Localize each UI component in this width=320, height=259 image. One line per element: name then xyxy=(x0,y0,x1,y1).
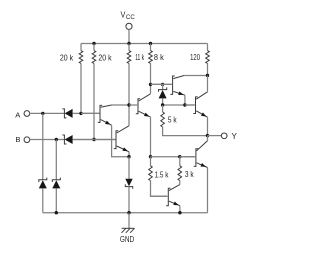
wire to Y terminal xyxy=(208,135,222,137)
svg-text:3 k: 3 k xyxy=(185,170,195,179)
label R3 11 k xyxy=(135,53,145,62)
input B terminal circle xyxy=(24,137,30,143)
transistor Q7 (output pull-down) xyxy=(180,136,208,213)
label R5 120 xyxy=(190,53,200,62)
label GND xyxy=(120,235,134,244)
svg-text:B: B xyxy=(15,135,20,144)
svg-text:Y: Y xyxy=(232,132,238,141)
label R8 3 k xyxy=(185,170,195,179)
node dot rail-VCC xyxy=(127,42,130,45)
resistor R6 5k leads xyxy=(163,105,208,136)
node dot 3k top xyxy=(178,155,181,158)
node dot B-R2 xyxy=(92,138,95,141)
resistor R3 11k leads xyxy=(128,44,130,106)
wire top VCC rail xyxy=(81,43,208,45)
resistor R5 120 xyxy=(206,51,210,64)
node dot 120-bottom xyxy=(206,74,209,77)
label R2 20 k xyxy=(98,54,112,63)
svg-text:20 k: 20 k xyxy=(98,54,112,63)
label input B xyxy=(15,135,20,144)
node dot A-R1 xyxy=(79,112,82,115)
label output Y xyxy=(232,132,238,141)
resistor R6 5k xyxy=(161,112,165,127)
node dot 5k top xyxy=(161,103,164,106)
resistor R8 3k leads xyxy=(179,157,181,166)
wire D4 bottom lead xyxy=(128,187,130,213)
diode D3 schottky xyxy=(159,87,167,98)
svg-text:20 k: 20 k xyxy=(60,54,74,63)
label R7 1.5 k xyxy=(155,171,170,180)
wire D3 top lead xyxy=(162,84,164,89)
node dot B-clamp xyxy=(55,138,58,141)
svg-text:5 k: 5 k xyxy=(168,115,178,124)
node dot X (Q1 collector / 11k / Q2 collector / Q3 base) xyxy=(127,103,130,106)
ground symbol xyxy=(122,228,135,233)
node dot rail-R4 xyxy=(149,42,152,45)
node dot Q1/Q2 emitter node xyxy=(127,155,130,158)
svg-text:GND: GND xyxy=(120,235,134,244)
svg-text:CC: CC xyxy=(126,14,135,21)
node dot Q4 emitter junction xyxy=(183,103,186,106)
resistor R5 120 leads xyxy=(207,44,209,76)
wire input B xyxy=(30,139,64,141)
diode D1 input A schottky xyxy=(62,109,72,118)
resistor R3 11k xyxy=(127,51,131,64)
transistor Q1 (input A) xyxy=(81,105,129,157)
power VCC terminal circle xyxy=(126,23,132,29)
resistor R2 20k leads xyxy=(93,44,95,140)
resistor R1 20k xyxy=(79,51,83,64)
label R4 8 k xyxy=(154,53,165,62)
svg-text:8 k: 8 k xyxy=(154,53,165,62)
node dot rail D4/GND xyxy=(127,211,130,214)
transistor Q3 (phase splitter) xyxy=(129,84,151,156)
resistor R7 1.5k xyxy=(149,166,153,181)
wire GND stem xyxy=(128,213,130,229)
diode D6 clamp B schottky xyxy=(52,178,60,189)
resistor R7 1.5k leads xyxy=(151,157,168,197)
node dot rail-R2 xyxy=(92,42,95,45)
output Y terminal circle xyxy=(221,133,227,139)
resistor R4 8k leads xyxy=(150,44,152,85)
wire node W to Q4 base xyxy=(151,83,172,85)
wire A clamp leg xyxy=(42,113,44,179)
node dot W (8k / Q3 collector / Q4 base) xyxy=(149,83,152,86)
svg-text:120: 120 xyxy=(190,53,200,62)
wire Q3 emitter node to Q7 base xyxy=(151,156,196,158)
node dot rail Q6 emitter xyxy=(178,211,181,214)
node dot output Y xyxy=(206,134,209,137)
node dot rail clamp-B xyxy=(55,211,58,214)
power VCC label xyxy=(121,10,136,21)
wire B to Q2 base xyxy=(73,139,116,141)
resistor R4 8k xyxy=(149,51,153,64)
wire B clamp leg xyxy=(55,140,57,180)
wire D4 top lead xyxy=(128,157,130,179)
node dot A-clamp xyxy=(41,112,44,115)
diode D5 clamp A schottky xyxy=(39,178,47,189)
label R6 5 k xyxy=(168,115,178,124)
wire D3 bottom lead xyxy=(162,98,164,105)
wire Q5 base xyxy=(163,104,195,106)
svg-text:1.5 k: 1.5 k xyxy=(155,171,170,180)
transistor Q5 (output pull-up) xyxy=(185,76,208,136)
resistor R8 3k xyxy=(178,166,182,181)
label input A xyxy=(15,110,21,119)
wire VCC stem xyxy=(128,29,130,43)
transistor Q2 (input B) xyxy=(73,105,129,157)
wire B clamp to rail xyxy=(55,188,57,212)
wire A clamp to rail xyxy=(42,188,44,212)
node dot Q3 emitter node xyxy=(149,155,152,158)
label R1 20 k xyxy=(60,54,74,63)
svg-text:11 k: 11 k xyxy=(135,53,145,62)
input A terminal circle xyxy=(24,111,30,117)
diode D2 input B schottky xyxy=(62,135,72,144)
wire input A xyxy=(30,112,64,114)
wire A to Q1 base xyxy=(73,112,100,114)
resistor R1 20k leads xyxy=(80,44,82,114)
node dot D3 anode tap xyxy=(161,83,164,86)
transistor Q6 (squaring network) xyxy=(151,181,180,213)
wire bottom ground rail xyxy=(43,212,208,214)
diode D4 schottky (to ground) xyxy=(125,179,132,189)
resistor R2 20k xyxy=(92,51,96,64)
transistor Q4 (darlington driver) xyxy=(151,76,208,106)
